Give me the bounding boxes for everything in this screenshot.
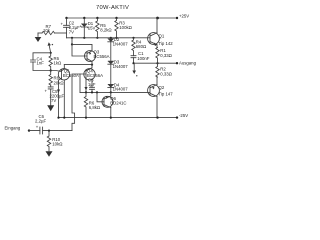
- svg-text:BD241C: BD241C: [110, 100, 126, 105]
- svg-text:0,33Ω: 0,33Ω: [160, 72, 172, 77]
- svg-text:1N4007: 1N4007: [113, 41, 129, 46]
- svg-text:+: +: [61, 22, 64, 27]
- svg-text:10k: 10k: [43, 28, 51, 33]
- svg-text:1N4007: 1N4007: [113, 64, 129, 69]
- svg-text:7V: 7V: [69, 29, 74, 34]
- svg-text:70W-AKTIV: 70W-AKTIV: [96, 5, 129, 11]
- svg-text:+: +: [36, 125, 39, 130]
- svg-text:Tip 147: Tip 147: [159, 92, 174, 97]
- svg-text:20kΩ: 20kΩ: [54, 80, 65, 85]
- svg-text:7V: 7V: [51, 98, 56, 103]
- svg-text:100kΩ: 100kΩ: [119, 25, 132, 30]
- svg-text:1N4007: 1N4007: [113, 87, 129, 92]
- svg-text:10kΩ: 10kΩ: [52, 141, 63, 146]
- svg-text:1kΩ: 1kΩ: [54, 60, 63, 65]
- svg-text:8,2kΩ: 8,2kΩ: [100, 27, 112, 32]
- svg-text:+: +: [45, 89, 48, 94]
- svg-text:Q2: Q2: [159, 85, 165, 90]
- svg-text:Ausgang: Ausgang: [179, 61, 197, 66]
- svg-text:15V: 15V: [88, 26, 96, 31]
- svg-text:Q1: Q1: [159, 34, 165, 39]
- svg-text:+25V: +25V: [179, 14, 189, 19]
- svg-text:680Ω: 680Ω: [136, 44, 147, 49]
- svg-text:BC556A: BC556A: [94, 54, 110, 59]
- svg-text:6,8kΩ: 6,8kΩ: [89, 105, 101, 110]
- svg-text:100nF: 100nF: [137, 56, 150, 61]
- svg-text:1µF: 1µF: [88, 82, 96, 87]
- svg-text:2,2µF: 2,2µF: [35, 119, 46, 124]
- svg-text:1nF: 1nF: [37, 61, 45, 66]
- svg-text:0,33Ω: 0,33Ω: [160, 53, 172, 58]
- svg-text:-25V: -25V: [179, 113, 188, 118]
- svg-text:Tip 142: Tip 142: [159, 41, 174, 46]
- svg-text:Eingang: Eingang: [5, 126, 21, 131]
